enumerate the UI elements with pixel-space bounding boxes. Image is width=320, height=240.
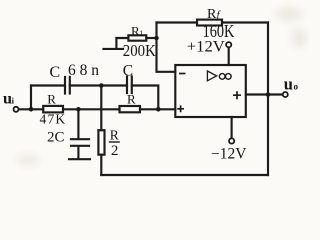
- wire 2C upper vertical: [77, 109, 79, 138]
- plus output sign: [233, 91, 241, 99]
- junction dot twin-T output: [156, 107, 161, 112]
- terminal u_o: [283, 92, 288, 97]
- wire u_i terminal to node A and resistor R(47K): [19, 108, 44, 110]
- svg-text:1: 1: [139, 29, 143, 38]
- wire R/2 bottom vertical: [100, 155, 102, 175]
- wire R1 right to inverting node: [146, 37, 156, 39]
- wire top rail right (Rf to right vertical): [222, 21, 268, 23]
- op-amp internal symbols: [177, 71, 241, 112]
- wire +12V supply: [228, 47, 230, 65]
- resistor R/2 box: [98, 130, 104, 155]
- wire op-amp output: [246, 93, 283, 95]
- svg-text:+12V: +12V: [187, 39, 225, 56]
- wire 2C to ground: [77, 147, 79, 158]
- junction dot output node: [266, 92, 271, 97]
- terminal +12V: [226, 42, 231, 47]
- resistor Rf box: [197, 20, 222, 26]
- wire -12V supply: [231, 117, 233, 138]
- svg-text:200K: 200K: [123, 41, 156, 60]
- svg-text:o: o: [294, 82, 299, 92]
- svg-text:R: R: [207, 7, 217, 22]
- wire second R to op-amp + input: [140, 108, 175, 110]
- op-amp gain triangle: [207, 71, 216, 81]
- svg-text:R: R: [47, 92, 56, 107]
- svg-text:47K: 47K: [40, 112, 67, 127]
- terminal -12V: [229, 138, 234, 143]
- capacitor 2C plates: [71, 139, 89, 146]
- svg-text:2: 2: [111, 143, 119, 159]
- svg-text:R: R: [127, 91, 136, 106]
- resistor R 47K box: [43, 106, 63, 113]
- infinity symbol: [219, 74, 225, 80]
- wire R1 left to ground: [116, 38, 128, 48]
- wire input node A vertical: [30, 86, 32, 110]
- svg-text:68n: 68n: [68, 62, 99, 79]
- wire C1 to C2 (midpoint node): [70, 84, 127, 86]
- wire between R 47K and second R: [63, 108, 120, 110]
- wire node A to C1: [31, 84, 65, 86]
- svg-text:R: R: [110, 128, 119, 143]
- junction dot 2C tap: [76, 107, 81, 112]
- ground bar below 2C: [69, 158, 90, 160]
- svg-text:C: C: [50, 64, 61, 81]
- svg-text:−12V: −12V: [211, 145, 247, 162]
- node A junction dot: [29, 107, 34, 112]
- wire right vertical (feedback to output): [267, 23, 269, 176]
- terminal u_i: [14, 107, 19, 112]
- wire C2 to corner down to + row: [132, 86, 159, 110]
- svg-text:C: C: [123, 62, 133, 79]
- wire top rail left (to Rf): [157, 21, 198, 23]
- resistor R (second) box: [120, 106, 141, 112]
- ground bar for R1: [104, 48, 124, 50]
- capacitor C2 plates: [127, 77, 132, 94]
- plus input sign: [177, 105, 184, 112]
- wire inverting node vertical + to op-amp - input: [157, 23, 176, 72]
- capacitor C1 plates (68n): [65, 77, 70, 94]
- wire R/2 top vertical (from C-branch midpoint, crosses bottom wire): [100, 86, 102, 131]
- svg-text:u: u: [284, 74, 293, 93]
- resistor R1 box: [128, 35, 146, 40]
- wire bottom rail (bootstrap from R/2 to output): [101, 174, 268, 176]
- op-amp U1 box: [175, 65, 246, 117]
- junction dot R1 / inverting: [154, 36, 159, 41]
- junction dot C-branch midpoint: [99, 83, 104, 88]
- minus input sign: [179, 73, 186, 75]
- svg-text:2C: 2C: [47, 129, 65, 145]
